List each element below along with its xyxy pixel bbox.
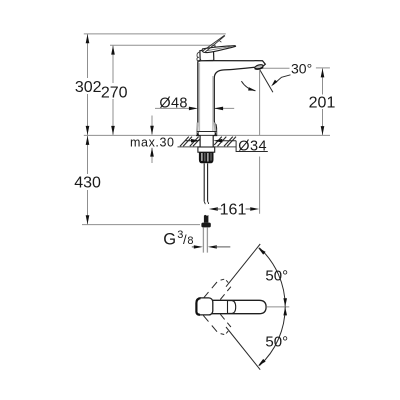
hatch strokes left [180, 137, 200, 147]
arrow 270 bottom [111, 126, 115, 135]
pipe lower stub [204, 215, 209, 223]
countertop bottom line left [178, 146, 200, 148]
dimension line 270 vertical [112, 45, 114, 135]
G38 dim line left [192, 246, 196, 248]
stream vertical reference [259, 70, 261, 214]
arrow 302 top [86, 34, 90, 43]
arrow d48 left [214, 107, 223, 111]
svg-text:8: 8 [187, 235, 193, 247]
30deg leader line [273, 75, 291, 85]
svg-text:Ø34: Ø34 [238, 139, 267, 155]
faucet body outline [197, 61, 266, 136]
nut knurl stripes [202, 153, 208, 162]
dimension 34 tail left [185, 140, 193, 142]
svg-text:302: 302 [75, 79, 102, 96]
boss cap curls [197, 52, 202, 62]
countertop top surface line [84, 134, 330, 136]
column shading right [212, 76, 214, 131]
base flare shade left [197, 132, 200, 135]
430 bottom extension line [82, 224, 200, 226]
svg-text:430: 430 [74, 175, 101, 192]
plan lever bar [211, 300, 266, 313]
30deg leader arrow [271, 80, 277, 87]
dimension line 302/430 vertical [87, 34, 89, 225]
plan grip divider [227, 300, 229, 313]
161 arrow right [250, 207, 259, 211]
base flare shading right [214, 123, 216, 136]
plan boss [196, 298, 213, 315]
svg-text:161: 161 [220, 202, 247, 219]
plan boss thick cap edge [196, 298, 200, 315]
arrow 201 up [321, 68, 325, 77]
shank lines [200, 136, 213, 147]
G38 arrow left-pointing [208, 245, 217, 248]
aerator dark lip [255, 67, 263, 69]
extension line (270 ref) [110, 44, 216, 46]
lever raised phantom [202, 35, 225, 52]
svg-text:G: G [163, 231, 176, 249]
phantom stub lower [203, 314, 231, 334]
supply pipe white core [205, 163, 207, 201]
swivel arc [241, 81, 255, 91]
201 top tick [316, 67, 330, 69]
161 tail left [216, 208, 222, 210]
swivel arc arrow [248, 87, 256, 90]
arrow 430 top [86, 136, 90, 145]
dimension 48 line right [214, 107, 234, 109]
extension line top (302 ref) [84, 33, 226, 35]
max.30 dimension line upper [151, 116, 153, 135]
arc upper arrow top [258, 248, 266, 255]
dimension 34 tail right [220, 140, 236, 142]
arrow d48 right [189, 107, 198, 111]
svg-text:Ø48: Ø48 [159, 95, 187, 111]
base flare shading left [196, 123, 199, 136]
plan grip cap [228, 301, 236, 314]
countertop bottom line right [214, 146, 236, 148]
shank below deck [201, 136, 213, 147]
dimension 48 line left [155, 107, 192, 109]
svg-text:201: 201 [309, 95, 336, 112]
phantom ticks [213, 41, 221, 47]
spout outlet aerator [254, 64, 263, 70]
base flare shade right [214, 132, 217, 135]
max.30 dimension line lower [151, 148, 153, 163]
svg-text:max.30: max.30 [130, 135, 175, 149]
arc lower arrow top [283, 307, 287, 315]
angle arc lower [259, 307, 285, 366]
arrow 270 top [111, 46, 115, 55]
radius line upper [226, 244, 260, 287]
30deg ref horizontal line [262, 67, 290, 69]
svg-text:30°: 30° [291, 61, 312, 77]
hose nut [201, 223, 210, 228]
arrow d34 right [191, 139, 200, 143]
svg-text:50°: 50° [265, 333, 288, 350]
arrow max30 down [150, 126, 154, 135]
handle boss front [200, 49, 214, 60]
svg-text:270: 270 [101, 84, 128, 101]
arc upper arrow bottom [283, 298, 287, 306]
arrow 201 down [321, 126, 325, 135]
radius line lower [226, 327, 260, 370]
supply pipe lines [204, 163, 207, 200]
blade inner line [207, 46, 234, 51]
phantom stub upper [203, 279, 231, 299]
dimension line 201 vertical [322, 68, 324, 135]
stream angle line [260, 70, 273, 93]
plan centerline [266, 306, 289, 308]
G38 dim tail right [215, 246, 231, 248]
d34 leader bracket [236, 141, 268, 152]
svg-text:50°: 50° [265, 267, 288, 284]
hatch strokes right [214, 137, 236, 147]
knurled nut [199, 152, 214, 163]
hose lines [203, 227, 207, 252]
161 arrow left [209, 207, 218, 211]
arc lower arrow bottom [258, 359, 266, 366]
arrow 302 bottom [86, 126, 90, 135]
arrow 430 bottom [86, 215, 90, 224]
svg-text:/: / [183, 232, 187, 247]
G38 arrow right-pointing [194, 245, 203, 248]
arrow max30 up [150, 148, 154, 157]
pipe break squiggle [204, 201, 209, 205]
arrow d34 left [213, 139, 222, 143]
lever blade rest [202, 46, 236, 53]
161 tail right [246, 208, 251, 210]
base seam [197, 131, 217, 133]
column shading left [198, 63, 200, 131]
washer [198, 147, 215, 152]
angle arc upper [259, 248, 285, 307]
